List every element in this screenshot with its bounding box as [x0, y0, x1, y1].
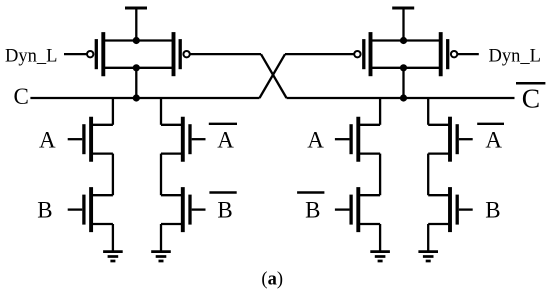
- label Bbar stack2: [209, 193, 236, 223]
- wire bottom rail left PMOS pair: [103, 67, 173, 69]
- svg-text:Dyn_L: Dyn_L: [5, 46, 57, 66]
- node junction left PMOS drains: [133, 64, 140, 71]
- wire stack4 Abar source to B drain: [427, 154, 429, 196]
- wire stack1 B source to ground: [112, 224, 114, 251]
- svg-text:(a): (a): [261, 270, 283, 290]
- node junction right PMOS drains: [400, 64, 407, 71]
- node junction VDD left: [133, 37, 140, 44]
- wire stub C to stack2: [160, 98, 162, 125]
- node junction C: [133, 94, 140, 101]
- wire right dynamic node vertical: [402, 68, 404, 98]
- nmos B stack1: [68, 187, 113, 232]
- wire stack2 Abar source to Bbar drain: [160, 154, 162, 196]
- wire stack1 A source to B drain: [112, 154, 114, 196]
- wire stack3 Bbar source to ground: [379, 224, 381, 251]
- ground stack2: [151, 252, 171, 261]
- wire stack2 Bbar source to ground: [160, 224, 162, 251]
- label Bbar stack3: [297, 193, 324, 223]
- wire stub Cbar to stack4: [427, 98, 429, 125]
- svg-text:B: B: [217, 198, 232, 223]
- wire cross diagonal C to right keeper: [260, 54, 286, 98]
- wire stack4 B source to ground: [427, 224, 429, 251]
- svg-text:A: A: [307, 128, 324, 153]
- nmos Bbar stack3: [335, 187, 380, 232]
- wire Cbar line: [287, 97, 515, 99]
- svg-text:B: B: [485, 198, 500, 223]
- wire Dyn_L gate lead left: [64, 53, 87, 55]
- svg-text:C: C: [14, 84, 29, 109]
- svg-text:Dyn_L: Dyn_L: [489, 46, 541, 66]
- ground stack1: [103, 252, 123, 261]
- wire C line: [30, 97, 259, 99]
- label Abar stack2: [209, 124, 237, 153]
- svg-text:A: A: [217, 128, 234, 153]
- ground stack4: [418, 252, 438, 261]
- nmos Abar stack4: [428, 117, 473, 162]
- power VDD left: [125, 8, 147, 41]
- wire stub C to stack1: [112, 98, 114, 125]
- nmos Bbar stack2: [161, 187, 206, 232]
- wire top rail left PMOS pair: [103, 39, 173, 41]
- nmos A stack3: [335, 117, 380, 162]
- nmos B stack4: [428, 187, 473, 232]
- pmos precharge left: [87, 32, 103, 76]
- wire stub Cbar to stack3: [379, 98, 381, 125]
- pmos keeper left: [174, 32, 190, 76]
- label Cbar: [516, 83, 545, 114]
- node junction VDD right: [400, 37, 407, 44]
- nmos Abar stack2: [161, 117, 206, 162]
- wire top rail right PMOS pair: [371, 39, 441, 41]
- svg-text:A: A: [39, 128, 56, 153]
- wire bottom rail right PMOS pair: [371, 67, 441, 69]
- svg-text:B: B: [37, 198, 52, 223]
- wire left dynamic node vertical: [135, 68, 137, 98]
- wire stack3 A source to Bbar drain: [379, 154, 381, 196]
- power VDD right: [392, 8, 414, 41]
- wire cross to right keeper bubble: [285, 53, 354, 55]
- svg-text:B: B: [305, 198, 320, 223]
- wire cross diagonal left keeper to Cbar: [261, 54, 287, 98]
- label Abar stack4: [477, 124, 504, 153]
- node junction Cbar: [400, 94, 407, 101]
- wire left keeper gate to cross: [190, 53, 261, 55]
- wire Dyn_L gate lead right: [457, 53, 479, 55]
- svg-text:A: A: [485, 128, 502, 153]
- pmos keeper right: [354, 32, 370, 76]
- ground stack3: [370, 252, 390, 261]
- nmos A stack1: [68, 117, 113, 162]
- pmos precharge right: [441, 32, 458, 76]
- svg-text:C: C: [522, 83, 540, 114]
